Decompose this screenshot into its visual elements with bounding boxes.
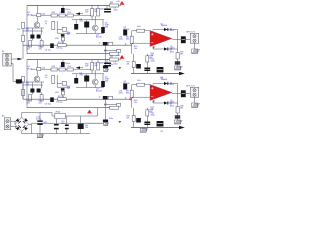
resistor R13b (29, 95, 32, 102)
resistor R17b (132, 116, 135, 122)
wire decoupling drop 2 (105, 108, 107, 120)
svg-text:R8b4k7: R8b4k7 (67, 32, 70, 36)
wire Q3 top stub 2 (75, 74, 77, 78)
arrow bias net 1 (76, 12, 80, 15)
resistor R10a (137, 29, 145, 32)
svg-text:R15 1k: R15 1k (58, 96, 64, 98)
resistor R22a (108, 42, 113, 45)
capacitor C13b (103, 120, 108, 123)
ground zobel 2 (174, 120, 182, 124)
op-amp power amplifier U1 (triangle) (150, 31, 172, 47)
ground channel 2 feedback (140, 128, 148, 132)
svg-text:100u: 100u (65, 63, 71, 65)
wire diode D1b row (153, 83, 178, 85)
resistor R5b (37, 68, 41, 71)
wire input channel 2 feed (11, 64, 23, 100)
capacitor C16 (65, 125, 69, 130)
wire D1 left stub 2 (152, 84, 154, 85)
svg-text:100n: 100n (100, 9, 106, 11)
wire drop to C3b (106, 60, 108, 63)
wire driver row 2 (57, 86, 70, 88)
resistor R17a (132, 62, 135, 68)
wire feedback leg 1 2 (133, 108, 135, 128)
capacitor C11a (144, 68, 150, 72)
wire Q3 top stub 1 (75, 20, 77, 24)
wire amp output 2 (172, 93, 190, 95)
wire to C14 (39, 112, 41, 120)
ground PSU main (37, 134, 44, 138)
capacitor C20a (61, 34, 65, 36)
resistor R6b (51, 68, 57, 71)
resistor R18a (146, 56, 149, 62)
wire C14 to ground (39, 125, 41, 134)
svg-text:1R: 1R (110, 56, 113, 58)
svg-text:1u: 1u (99, 96, 101, 98)
wire drop to C2a (62, 6, 64, 9)
capacitor C14 smoothing (37, 120, 42, 125)
wire bias row channel 2 (31, 68, 91, 70)
wire to C17 (80, 116, 82, 124)
diode D2a (164, 47, 168, 50)
resistor R4b (97, 63, 100, 71)
power flag -35V near U2 (152, 101, 155, 103)
connector output SP1 (190, 33, 198, 43)
power flag +15V PSU (87, 110, 92, 114)
svg-text:100n: 100n (100, 63, 106, 65)
wire to amp feedback 2 (132, 96, 150, 98)
trimmer VR1a (61, 37, 64, 41)
wire output vertical 2 (177, 84, 179, 121)
wire feedback leg 1 1 (133, 54, 135, 74)
resistor R5a (37, 14, 41, 17)
wire R4 to Q4 2 (94, 70, 96, 79)
wire C15 ground (55, 129, 57, 133)
wire R4 to Q4 1 (94, 16, 96, 25)
transistor Q4b (92, 79, 98, 85)
resistor R23b (117, 103, 121, 106)
wire lower rail 1 (131, 73, 179, 75)
wire to amp feedback 1 (132, 42, 150, 44)
inductor L1a with R parallel (181, 36, 186, 43)
power flag speck 2 (119, 121, 122, 123)
capacitor C3a (104, 9, 111, 13)
arrow lower rail 2 (179, 126, 185, 129)
wire Q4 emitter stub 1 (94, 31, 96, 33)
inductor L1b detail (182, 93, 186, 95)
wire left vertical channel 1 (26, 6, 28, 54)
wire C7-R14 1 (41, 39, 43, 41)
capacitor C22a (103, 42, 108, 46)
wire signal path 2 (23, 98, 132, 100)
inductor L1b with R parallel (181, 90, 186, 97)
wire AC to bridge left (15, 121, 17, 124)
capacitor C19a box (62, 28, 66, 32)
power flag speck 1 (119, 67, 122, 69)
resistor R7a (59, 14, 65, 17)
transistor Q3b (dark) (74, 78, 78, 84)
diode D5 bridge (16, 125, 21, 130)
capacitor C7a (37, 35, 41, 39)
resistor R1b supply rail (110, 58, 119, 61)
wire connector to ground 2 (194, 97, 196, 103)
resistor R18b (146, 110, 149, 116)
wire C22 to rail 1 (105, 46, 107, 54)
wire drop to R3b (91, 60, 93, 63)
wire left vertical channel 2 (26, 60, 28, 108)
transistor Q6a (dark) (123, 30, 127, 36)
transistor Q3a (dark) (74, 24, 78, 30)
wire V- rail channel 1 (27, 53, 113, 55)
wire V+ rail channel 1 (27, 5, 109, 7)
wire AC neutral (11, 126, 17, 128)
wire driver branch 2 (56, 75, 58, 87)
wire R3 bottom 2 (91, 70, 93, 74)
wire bias row channel 1 (31, 14, 91, 16)
svg-text:R2010k: R2010k (134, 100, 137, 104)
wire node to C6 1 (31, 28, 33, 35)
wire C22 to rail 2 (105, 100, 107, 108)
wire bias arrow stub 1 (80, 13, 83, 15)
wire drop to R5a (37, 6, 39, 14)
wire input vertical 1 (22, 23, 24, 60)
wire Q4 emitter stub 2 (94, 85, 96, 87)
capacitor C12b (157, 121, 164, 127)
capacitor C13a (103, 66, 108, 69)
capacitor C2b (61, 62, 65, 67)
capacitor C17 electrolytic (78, 124, 84, 129)
wire to supply flag channel 2 (109, 59, 121, 61)
wire to supply flag channel 1 (109, 5, 121, 7)
capacitor C10a (136, 64, 141, 69)
bridge rectifier B1 frame (15, 117, 29, 131)
wire regulator output (65, 115, 97, 117)
resistor R13a (29, 41, 32, 48)
wire C4 bottom stub 1 (86, 28, 88, 34)
wire AC to bridge lower (16, 127, 17, 129)
wire collector row channel 2 (72, 73, 104, 75)
wire Q5 base stub 1 (102, 20, 104, 27)
inductor L1a detail (182, 39, 186, 41)
resistor R21a (52, 22, 55, 30)
capacitor C11b (144, 122, 150, 126)
diode D1a (164, 28, 168, 31)
wire node to C6 2 (31, 82, 33, 89)
capacitor C19b box (62, 82, 66, 86)
op-amp U1 input polarity marks (151, 33, 153, 43)
svg-text:1k: 1k (125, 98, 127, 100)
resistor R2b negative rail (110, 106, 119, 109)
resistor R21b (52, 76, 55, 84)
wire amp output 1 (172, 39, 190, 41)
op-amp power amplifier U2 (triangle) (150, 85, 172, 101)
wire output vertical 1 (177, 30, 179, 67)
wire drop to C2b (62, 60, 64, 63)
ground C13a (104, 69, 109, 72)
diode D6 bridge (23, 125, 28, 130)
wire lower rail 2 (131, 127, 179, 129)
svg-text:R8b4k7: R8b4k7 (67, 86, 70, 90)
transistor Q6b (dark) (123, 84, 127, 90)
wire emitter row channel 1 (76, 33, 104, 35)
wire input node row 2 (23, 84, 43, 86)
trimmer VR1b (61, 91, 64, 95)
svg-text:100n: 100n (109, 118, 113, 120)
wire drop to R4b (97, 60, 99, 63)
wire input node row 1 (23, 30, 43, 32)
resistor R12a (22, 36, 25, 42)
capacitor C12a (157, 67, 164, 73)
wire stub row 1 (104, 50, 117, 52)
transistor Q5b (dark) (101, 81, 105, 87)
resistor R11a (22, 23, 25, 29)
transistor Q1a (34, 22, 40, 28)
wire VR1 wiper 2 (62, 95, 64, 98)
ground output connector 2 (192, 103, 200, 108)
wire to C16 (66, 116, 68, 125)
capacitor C9a zobel (175, 61, 180, 64)
resistor R14a (40, 41, 43, 48)
wire drop to R3a (91, 6, 93, 9)
wire C6-R13 1 (31, 39, 33, 41)
wire D2 left stub 2 (152, 101, 154, 104)
capacitor C12a detail (157, 69, 163, 71)
wire V+ rail channel 2 (27, 59, 109, 61)
resistor R22b (108, 96, 113, 99)
connector output SP2 (190, 87, 198, 97)
svg-text:R1910k: R1910k (151, 53, 154, 57)
transistor Q1b (34, 76, 40, 82)
arrow bias net 2 (76, 66, 80, 69)
wire bridge + output (22, 112, 52, 117)
svg-text:R2010k: R2010k (134, 46, 137, 50)
svg-text:10k log: 10k log (56, 48, 62, 50)
capacitor C7b (37, 89, 41, 93)
wire Q5 base stub 2 (102, 74, 104, 81)
diode D2b (164, 101, 168, 104)
wire to C19b (57, 82, 62, 84)
wire feedback leg 2 1 (146, 54, 148, 74)
svg-text:C8 10u: C8 10u (45, 50, 51, 52)
resistor R7b (59, 68, 65, 71)
capacitor C20b (61, 88, 65, 90)
ground zobel 1 (174, 66, 182, 70)
wire VR1 wiper 1 (62, 41, 64, 44)
resistor R4a (97, 9, 100, 17)
capacitor C15 (54, 124, 59, 129)
wire Q5 to Q6 2 (85, 122, 105, 124)
svg-text:R15 1k: R15 1k (58, 42, 64, 44)
capacitor C8b electrolytic (50, 97, 54, 102)
resistor R1a supply rail (110, 4, 119, 7)
capacitor C3b (104, 63, 111, 67)
svg-text:1R: 1R (110, 2, 113, 4)
arrow lower rail 1 (179, 72, 185, 75)
capacitor C4a electrolytic (84, 22, 89, 28)
ground output connector 1 (192, 49, 200, 54)
resistor R15a (58, 44, 67, 47)
svg-text:R1910k: R1910k (151, 107, 154, 111)
wire ground rail PSU (22, 131, 90, 133)
resistor R10b (137, 83, 145, 86)
resistor R9a (130, 36, 133, 44)
resistor R16a zobel (176, 53, 179, 60)
resistor R2a negative rail (110, 52, 119, 55)
wire C4 bottom stub 2 (86, 82, 88, 88)
svg-text:1k: 1k (125, 44, 127, 46)
wire to amp input 1 (132, 30, 150, 32)
wire D2 left stub 1 (152, 47, 154, 50)
wire to amp input 2 (132, 84, 150, 86)
resistor R14b (40, 95, 43, 102)
capacitor C6b (30, 89, 34, 93)
wire C16 ground (66, 129, 68, 133)
resistor R8a (67, 14, 73, 17)
arrow input signal (18, 58, 23, 61)
connector input J1 (3, 53, 11, 66)
capacitor C2a (61, 8, 65, 13)
wire decoupling drop 1 (105, 54, 107, 66)
wire R5 to Q1 1 (36, 17, 38, 23)
wire upper input row 1 (26, 27, 44, 29)
wire D1 left stub 1 (152, 30, 154, 31)
capacitor C22b (103, 96, 108, 100)
wire C4 top stub 1 (86, 20, 88, 22)
svg-text:10k log: 10k log (56, 102, 62, 104)
resistor R9b (130, 90, 133, 98)
wire C4 top stub 2 (86, 74, 88, 76)
wire feedback leg 2 2 (146, 108, 148, 128)
wire bias arrow stub 2 (80, 67, 83, 69)
wire AC live (11, 120, 17, 122)
power flag -35V near U1 (152, 47, 155, 49)
wire R3 bottom 1 (91, 16, 93, 20)
transistor Q4a (92, 25, 98, 31)
resistor R15b (58, 98, 67, 101)
wire into regulator U3 (52, 112, 55, 116)
regulator U3 (55, 113, 65, 119)
wire C7-R14 2 (41, 93, 43, 95)
svg-text:C8 10u: C8 10u (45, 104, 51, 106)
resistor R16b zobel (176, 107, 179, 114)
capacitor C12b detail (157, 123, 163, 125)
svg-text:1u: 1u (99, 42, 101, 44)
wire input arrow (11, 58, 21, 60)
resistor R3a (91, 9, 94, 17)
capacitor C4b electrolytic (84, 76, 89, 82)
diode D4 bridge (23, 118, 28, 123)
power flag +35V channel 1 (120, 1, 125, 5)
wire driver row 1 (57, 32, 70, 34)
capacitor C9b zobel (175, 115, 180, 118)
wire V- rail channel 2 (27, 107, 113, 109)
wire to C15 (55, 119, 57, 124)
resistor R3b (91, 63, 94, 71)
wire stub row 2 (104, 104, 117, 106)
power flag +35V channel 2 (120, 55, 125, 59)
wire Q5 to Q6 1 (31, 122, 105, 124)
ground C13b (104, 123, 109, 126)
capacitor C6a (30, 35, 34, 39)
wire upper input row 2 (26, 81, 44, 83)
wire driver branch 1 (56, 21, 58, 33)
diode D1b (164, 82, 168, 85)
capacitor C8a electrolytic (50, 43, 54, 48)
wire C6-R13 2 (31, 93, 33, 95)
connector AC input J2 (4, 118, 10, 130)
diode D3 bridge (16, 118, 21, 123)
wire collector row channel 1 (72, 19, 104, 21)
wire PSU to channel rail (97, 108, 99, 116)
capacitor C10b (136, 118, 141, 123)
resistor R12b (22, 90, 25, 96)
wire drop to C3a (106, 6, 108, 9)
wire diode D2a row (153, 48, 178, 50)
wire drop to R4a (97, 6, 99, 9)
wire connector to ground 1 (194, 43, 196, 49)
resistor R8b (67, 68, 73, 71)
wire node to C7 1 (41, 28, 43, 35)
wire bridge right node (29, 124, 32, 133)
wire diode D2b row (153, 102, 178, 104)
wire R5 to Q1 2 (36, 71, 38, 77)
wire VAS vertical 2 (131, 85, 133, 108)
wire VAS vertical 1 (131, 31, 133, 54)
power flag speck channel 2 VAS (129, 99, 132, 101)
svg-text:100u: 100u (65, 9, 71, 11)
op-amp U2 input polarity marks (151, 87, 153, 97)
capacitor C1b input coupling (16, 79, 22, 83)
wire node to C7 2 (41, 82, 43, 89)
wire drop to R5b (37, 60, 39, 68)
resistor R6a (51, 14, 57, 17)
wire C17 ground (80, 129, 82, 134)
resistor R11b (22, 77, 25, 83)
wire emitter row channel 2 (76, 87, 104, 89)
wire input vertical 2 (22, 77, 24, 100)
resistor R23a (117, 49, 121, 52)
wire to C19a (57, 28, 62, 30)
transistor Q5a (dark) (101, 27, 105, 33)
wire diode D1a row (153, 29, 178, 31)
wire signal path 1 (23, 44, 132, 46)
